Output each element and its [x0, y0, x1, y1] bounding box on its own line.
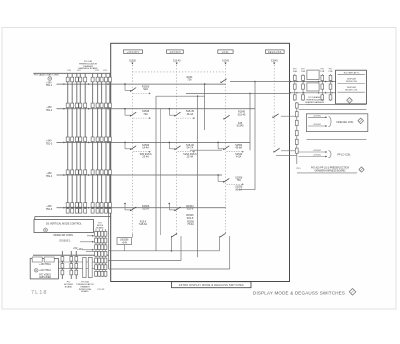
svg-text:TB1-4: TB1-4	[46, 176, 53, 178]
svg-text:P/O A10 PP LO & PREDEFLEC: P/O A10 PP LO & PREDEFLECTION	[311, 166, 349, 169]
svg-text:72A: 72A	[187, 79, 192, 82]
svg-text:+15VDC: +15VDC	[313, 115, 322, 117]
svg-text:DISPLAY MODE & DEGAUSS SWI: DISPLAY MODE & DEGAUSS SWITCHES	[253, 290, 345, 295]
svg-text:MODE SW: MODE SW	[346, 81, 358, 83]
svg-text:S15-6: S15-6	[187, 208, 194, 211]
svg-text:75A: 75A	[236, 179, 241, 182]
svg-text:ASTRO DISPLAY MODE & DEGAUS: ASTRO DISPLAY MODE & DEGAUSS SWITCHES	[179, 284, 244, 287]
svg-text:+150: +150	[46, 206, 52, 208]
svg-text:DS VERTICAL MODE CONTROL: DS VERTICAL MODE CONTROL	[46, 222, 82, 225]
svg-text:TB1-3: TB1-3	[46, 144, 53, 146]
svg-text:+24V: +24V	[122, 243, 128, 245]
svg-text:S15-6: S15-6	[187, 217, 194, 220]
svg-text:25 4A: 25 4A	[142, 156, 149, 159]
svg-text:P/O: P/O	[103, 70, 107, 72]
svg-text:S15-6: S15-6	[142, 208, 149, 211]
svg-text:+24V: +24V	[77, 249, 83, 251]
svg-text:S15-45: S15-45	[173, 59, 181, 62]
svg-text:P/O: P/O	[77, 70, 81, 72]
svg-text:BOARD: BOARD	[65, 285, 73, 288]
svg-text:S15-45: S15-45	[238, 113, 246, 116]
svg-text:+24V: +24V	[46, 141, 52, 143]
svg-text:+150: +150	[46, 107, 52, 109]
svg-text:72A: 72A	[143, 113, 148, 116]
svg-text:DRAWER HARNESS: DRAWER HARNESS	[305, 101, 325, 104]
svg-text:7L18: 7L18	[31, 290, 47, 296]
svg-text:+24V TB1A: +24V TB1A	[39, 269, 51, 272]
svg-text:+24V/DIV: +24V/DIV	[127, 51, 140, 54]
svg-text:LM2506: LM2506	[120, 240, 129, 242]
svg-text:P2A: P2A	[301, 70, 305, 73]
svg-text:TB1-2: TB1-2	[46, 110, 53, 112]
svg-text:+150 TB1A: +150 TB1A	[39, 263, 51, 266]
svg-text:EQ VERT ATTC: EQ VERT ATTC	[344, 72, 360, 75]
svg-text:PP LO COIL: PP LO COIL	[337, 154, 351, 157]
svg-text:+15VDC: +15VDC	[313, 155, 322, 157]
svg-text:+15VDC: +15VDC	[313, 150, 322, 152]
svg-text:TB1-5: TB1-5	[46, 209, 53, 211]
svg-text:25 4A: 25 4A	[187, 156, 194, 159]
svg-text:S1543: S1543	[222, 59, 230, 62]
svg-text:P/O 1A2A2 CHAS CONN: P/O 1A2A2 CHAS CONN	[34, 74, 59, 77]
svg-text:04-7A: 04-7A	[187, 147, 194, 150]
svg-text:+150: +150	[46, 173, 52, 175]
svg-text:75-6A: 75-6A	[187, 223, 194, 226]
svg-text:P/O: P/O	[68, 70, 72, 72]
svg-text:45-8A: 45-8A	[235, 147, 242, 150]
svg-text:-24V/DIV: -24V/DIV	[169, 51, 181, 54]
svg-text:AMPLIFIER: AMPLIFIER	[39, 276, 51, 279]
svg-text:4-5A: 4-5A	[236, 156, 242, 159]
svg-text:+15VDC: +15VDC	[313, 124, 322, 126]
svg-text:S1500: S1500	[129, 59, 137, 62]
svg-text:P/O P6: P/O P6	[98, 289, 106, 291]
svg-text:P/O: P/O	[297, 168, 301, 170]
svg-text:P2B: P2B	[320, 71, 324, 73]
svg-text:P5B: P5B	[329, 71, 333, 73]
svg-text:46-4A: 46-4A	[187, 113, 194, 116]
svg-text:DRAWER HARNESS BOARD: DRAWER HARNESS BOARD	[315, 169, 346, 172]
svg-text:BOARD: BOARD	[96, 226, 104, 229]
svg-text:P/O: P/O	[95, 70, 99, 72]
svg-text:S2A: S2A	[143, 88, 148, 91]
svg-text:LOAL: LOAL	[222, 51, 230, 54]
svg-text:+24V: +24V	[46, 82, 52, 84]
svg-text:DEGAUSS: DEGAUSS	[268, 51, 282, 54]
svg-text:P4A: P4A	[293, 70, 297, 73]
svg-text:S1545: S1545	[237, 125, 245, 128]
svg-text:TB1-1: TB1-1	[46, 85, 53, 87]
svg-text:BOARD: BOARD	[81, 290, 89, 293]
svg-text:S1545: S1545	[271, 59, 279, 62]
svg-text:MODE COIL: MODE COIL	[345, 90, 358, 92]
svg-text:MODE SW CONN: MODE SW CONN	[54, 234, 74, 237]
svg-text:S15-6A: S15-6A	[139, 223, 147, 226]
svg-text:14-4A: 14-4A	[142, 147, 149, 150]
svg-text:DS BUS 1: DS BUS 1	[60, 239, 72, 242]
svg-text:FINE DEL COIL: FINE DEL COIL	[337, 121, 355, 124]
